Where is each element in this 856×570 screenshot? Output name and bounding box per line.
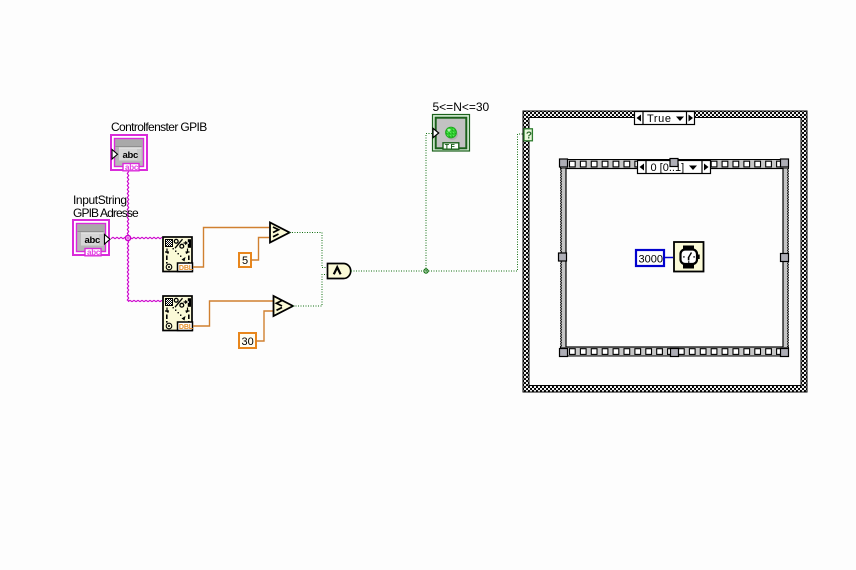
wire bool: junction to case selector	[426, 134, 524, 271]
boolean indicator 5<=N<=30 (round LED)	[433, 115, 470, 152]
label InputString GPIB Adresse	[73, 193, 139, 220]
wire DBL: Scan1 to GE comparator	[193, 228, 269, 268]
wire string: to Scan2	[128, 300, 162, 301]
sequence resize handles	[559, 159, 789, 357]
svg-text:5: 5	[242, 255, 248, 267]
wire DBL: 30 to LE comparator	[256, 311, 273, 341]
numeric constant 5	[239, 253, 251, 267]
svg-text:abc: abc	[87, 248, 101, 257]
svg-text:0 [0..1]: 0 [0..1]	[651, 162, 685, 174]
wire bool: GE to AND	[290, 233, 328, 268]
svg-text:5<=N<=30: 5<=N<=30	[433, 100, 490, 114]
svg-text:DBL: DBL	[179, 264, 194, 272]
AND gate	[328, 264, 351, 279]
svg-text:Controlfenster GPIB: Controlfenster GPIB	[111, 120, 207, 134]
string control InputString GPIB Adresse	[73, 220, 110, 257]
junction string wires	[125, 235, 130, 240]
svg-text:GPIB Adresse: GPIB Adresse	[73, 206, 139, 220]
svg-text:abc: abc	[123, 150, 138, 161]
wire string: InputString to junction	[111, 237, 128, 238]
function Scan From String 1	[163, 237, 194, 272]
case structure border (hatched)	[523, 111, 807, 392]
sequence structure frame	[561, 160, 789, 357]
svg-text:DBL: DBL	[179, 323, 194, 331]
sequence selector label 0 [0..1]	[638, 161, 711, 175]
svg-text:InputString: InputString	[73, 193, 127, 207]
function Wait (ms)	[674, 242, 704, 272]
wire bool: LE to AND	[293, 275, 328, 307]
wire string: junction to Scan1	[128, 237, 162, 238]
comparator GE (greater or equal)	[270, 223, 290, 243]
case selector terminal ?	[524, 129, 532, 142]
svg-text:?: ?	[526, 131, 532, 142]
svg-text:30: 30	[242, 336, 254, 348]
wire bool: junction up to indicator	[426, 134, 432, 272]
wire bool: AND to junction	[351, 270, 426, 272]
wire DBL: Scan2 to LE comparator	[193, 301, 273, 326]
wire int: 3000 to Wait ms	[665, 257, 674, 259]
string indicator Controlfenster GPIB	[111, 135, 147, 172]
wire string: junction down	[127, 238, 128, 301]
numeric constant 3000	[636, 250, 664, 266]
svg-text:abc: abc	[125, 163, 139, 172]
function Scan From String 2	[163, 296, 194, 331]
junction bool wire	[424, 269, 428, 273]
svg-text:3000: 3000	[639, 254, 663, 266]
numeric constant 30	[239, 333, 256, 348]
wire string: Controlfenster down to junction	[127, 172, 128, 239]
svg-text:TF: TF	[445, 144, 456, 151]
svg-text:abc: abc	[85, 235, 100, 246]
wire DBL: 5 to GE comparator	[251, 238, 269, 261]
comparator LE (less or equal)	[274, 296, 294, 316]
case selector label True	[635, 112, 695, 126]
svg-text:True: True	[647, 113, 672, 125]
